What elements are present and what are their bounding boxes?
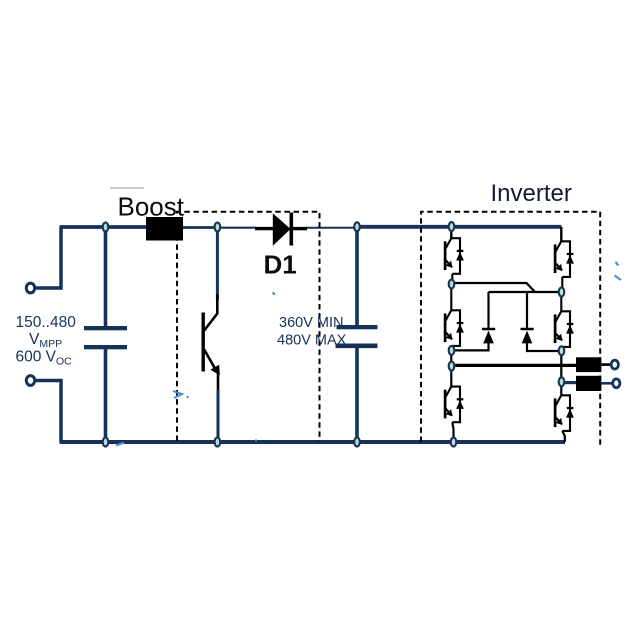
node C1 top / top rail — [103, 223, 109, 232]
IGBT Q3 (left middle) — [445, 310, 460, 346]
node DC link bottom / bottom rail — [354, 438, 360, 447]
dashed box around boost stage — [177, 212, 320, 441]
wire from - terminal to bottom rail — [36, 381, 62, 443]
wire: Q3 emitter to node — [451, 346, 453, 348]
svg-text:VMPP: VMPP — [29, 331, 62, 350]
node right leg output B tap — [559, 377, 565, 386]
wire: clamp diode bus — [489, 291, 536, 293]
stray gray mark above Boost label — [110, 187, 144, 189]
capacitor C1 top plate — [84, 326, 127, 330]
wire: right leg between nodes (crosses output line) — [560, 351, 562, 382]
wire: Q4 emitter to bottom rail — [452, 422, 453, 442]
capacitor C2 top plate — [337, 325, 378, 329]
svg-text:150..480: 150..480 — [16, 314, 77, 331]
node DC link top / top rail — [354, 222, 360, 231]
diode D3 cathode bar — [521, 328, 534, 331]
wire: D3 anode to right leg node — [527, 343, 562, 351]
wire: left leg node to Q4 collector — [450, 366, 452, 387]
node left leg midpoint lower — [449, 346, 455, 355]
IGBT Q7 (right bottom) — [555, 395, 570, 431]
inductor L3 (output choke B) — [576, 376, 601, 391]
svg-text:Inverter: Inverter — [491, 180, 572, 207]
bottom rail wire — [60, 440, 566, 444]
diode D1 cathode lead — [293, 227, 307, 230]
wire: right leg node to Q7 collector — [560, 384, 562, 395]
diode D2 cathode bar — [482, 328, 495, 331]
wire: Q2 emitter to node — [451, 274, 453, 281]
node boost emitter / bottom rail — [215, 438, 221, 447]
top rail wire (boost inductor to D1) — [183, 226, 218, 229]
inductor L1 (boost choke, solid block) — [146, 217, 183, 241]
transistor Q1 (boost IGBT) — [203, 294, 217, 372]
node C1 bottom / bottom rail — [103, 438, 109, 447]
diode D1 body — [273, 213, 291, 245]
svg-text:600 VOC: 600 VOC — [16, 349, 73, 368]
wire: Q6 emitter to node — [561, 347, 563, 348]
capacitor C2 bottom plate — [336, 344, 378, 349]
wire: left mid node across to right node (with jog) — [452, 283, 562, 292]
top rail wire (boost node to D1) — [218, 227, 257, 229]
IGBT Q4 (left bottom) — [445, 387, 460, 423]
stray blue marks (right edge) — [616, 262, 619, 266]
wire: Q5 emitter to node — [561, 277, 563, 288]
IGBT Q5 (right top) — [555, 241, 570, 277]
stray blue mark (bottom rail) — [116, 443, 124, 446]
stray green dot (bottom rail) — [255, 440, 257, 442]
output terminal B — [613, 379, 620, 388]
wire: Q7 emitter to bottom rail end — [562, 431, 565, 442]
inductor L2 (output choke A) — [576, 357, 601, 372]
diode D1 anode lead — [255, 227, 274, 230]
capacitor C2 bottom lead — [355, 348, 359, 442]
wire: clamp diode D2 top lead — [487, 292, 489, 329]
node boost switch / top rail — [215, 223, 221, 232]
top rail wire (DC-link to inverter) — [357, 225, 562, 229]
diode D3 body (points up) — [522, 331, 533, 344]
input terminal - (bottom left) — [26, 376, 34, 386]
capacitor C1 bottom lead — [104, 349, 108, 442]
node inverter left leg / top rail — [449, 222, 455, 231]
svg-text:D1: D1 — [264, 250, 297, 280]
wire: D2 anode to left leg node — [452, 343, 489, 350]
wire: boost switch emitter down to bottom rail — [217, 373, 220, 392]
node right leg midpoint lower — [559, 346, 565, 355]
capacitor C1 bottom plate — [84, 345, 127, 349]
stray blue mark (left of boost box bottom) — [173, 391, 182, 398]
wire: left leg collector from top rail — [450, 228, 452, 238]
wire: L2 to terminal — [601, 363, 611, 366]
top rail wire (left of boost inductor) — [60, 225, 147, 229]
wire: top rail node down to boost switch collector — [216, 227, 219, 300]
svg-text:360V MIN: 360V MIN — [279, 315, 343, 331]
wire: clamp diode D3 top lead — [526, 292, 528, 329]
IGBT Q6 (right middle) — [555, 311, 570, 347]
IGBT Q2 (left top) — [445, 238, 460, 274]
wire: L3 to terminal — [601, 382, 612, 385]
wire: left leg node to Q3 collector — [450, 287, 452, 310]
wire: right leg collector from top rail — [560, 227, 562, 241]
node right leg midpoint upper — [559, 288, 565, 297]
stray green mark (near boost box) — [273, 293, 276, 295]
wire: left leg between mid nodes — [450, 351, 452, 367]
capacitor C2 (DC link) top lead — [355, 227, 359, 326]
diode D1 cathode bar — [289, 213, 293, 246]
wire from + terminal to top rail — [36, 227, 62, 288]
wire: output phase B — [562, 381, 577, 384]
output terminal A — [611, 360, 618, 369]
node left leg midpoint upper — [449, 280, 455, 289]
wire: output phase A (thick) — [452, 364, 577, 367]
input terminal + (top left) — [26, 283, 34, 293]
top rail wire (D1 to DC-link node) — [306, 227, 357, 229]
node inverter left leg / bottom rail — [451, 438, 457, 447]
capacitor C1 top lead — [104, 227, 108, 326]
wire: right leg node to Q6 collector — [560, 295, 562, 311]
svg-text:480V MAX: 480V MAX — [277, 333, 347, 349]
dashed box around inverter stage — [421, 212, 600, 447]
diode D2 body (points up) — [483, 331, 494, 344]
node left leg output A tap — [449, 362, 455, 371]
